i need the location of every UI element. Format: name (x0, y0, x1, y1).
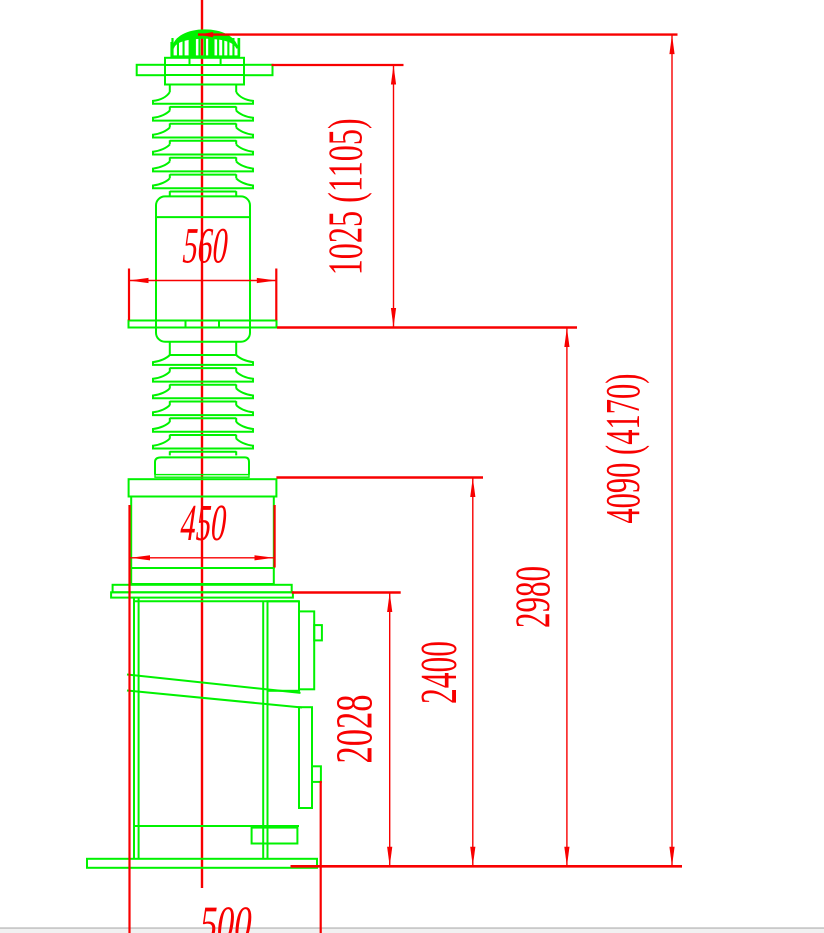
node body lower neck (170, 342, 236, 355)
wire lower shed neck 5 (170, 435, 236, 439)
node bottom step box (252, 828, 298, 844)
node dome cap crescent (172, 29, 239, 48)
wire ext line 450 right (274, 505, 276, 568)
svg-text:2980: 2980 (504, 566, 560, 628)
node terminal arm right (244, 65, 273, 75)
node arrow at centerline top (199, 32, 213, 37)
wire dim line 560 (129, 280, 276, 282)
wire ext line 500 right (320, 781, 322, 933)
node upper right panel (299, 611, 314, 689)
wire lower shed neck 1 (170, 368, 236, 372)
node top plate of box section (129, 479, 277, 496)
wire ext line 560 left (128, 269, 130, 321)
wire strip divider left (189, 58, 191, 65)
wire upper shed neck 2 (170, 123, 236, 127)
node lower insulator shed 4 (153, 405, 253, 415)
node main body cylinder (156, 196, 250, 341)
node arrow 2400 bottom (470, 847, 475, 867)
wire lower stack bottom neck (170, 451, 236, 455)
wire centerline (red vertical axis) (201, 0, 203, 888)
node arrow 450 right (255, 555, 275, 560)
wire tank right wall outer (262, 601, 264, 859)
wire dim line 2400 vertical (472, 478, 474, 867)
node arrow 2400 top (470, 478, 475, 498)
node upper insulator shed 5 (153, 161, 253, 171)
node terminal flange block (165, 65, 244, 85)
wire upper shed neck 5 (170, 174, 236, 178)
wire dim ref line bottom (291, 865, 683, 868)
wire dim ref line 2980 top (277, 326, 577, 328)
node lower right bump (312, 766, 321, 782)
wire dim line 2980 vertical (566, 328, 568, 867)
node arrow 4090 top (669, 35, 674, 55)
node box 450 section (131, 497, 274, 569)
wire dim ref line top 4090 (198, 33, 678, 35)
wire flange block divider (165, 74, 244, 76)
wire tank left wall inner (138, 598, 140, 859)
wire dim ref line 2400 top (276, 476, 483, 478)
wire dim line 1025 vertical (393, 65, 395, 328)
wire dim ref line 1025 top (272, 64, 404, 66)
wire body internal line (156, 216, 250, 218)
node lower insulator shed 6 (153, 439, 253, 449)
node neck under flange (170, 85, 236, 93)
wire mid flange divider left (185, 321, 187, 328)
svg-text:450: 450 (177, 494, 231, 552)
node arrow 1025 top (391, 65, 396, 85)
node crown bars (171, 38, 240, 56)
node lower cap block (155, 457, 249, 474)
wire dim ref line 2028 top (292, 591, 401, 593)
node upper insulator shed 2 (153, 111, 253, 121)
wire tank left wall outer (133, 598, 135, 859)
wire tank diagonal 2 (127, 691, 302, 708)
svg-text:4090 (4170): 4090 (4170) (595, 374, 650, 524)
wire upper shed neck 3 (170, 140, 236, 144)
node bottom gray band (0, 927, 824, 929)
node lower insulator shed 5 (153, 422, 253, 432)
node box lower section (131, 568, 274, 584)
node upper insulator shed 4 (153, 145, 253, 155)
wire lower shed neck 4 (170, 418, 236, 422)
node mid flange plate (129, 321, 277, 328)
node upper insulator shed 3 (153, 128, 253, 138)
wire tank diagonal 1 (127, 675, 301, 693)
node tank top plate lower (111, 592, 293, 597)
wire tank right wall inner (267, 601, 269, 859)
svg-text:2028: 2028 (327, 695, 384, 764)
node tank top plate wide (113, 585, 292, 593)
node lower right panel (299, 707, 312, 808)
node arrow 2028 top (387, 593, 392, 613)
node arrow 560 left (129, 278, 149, 283)
wire ext line 450-500 left (128, 505, 130, 933)
node upper right bump (314, 625, 322, 640)
node arrow 1025 bottom (391, 308, 396, 328)
wire dim line 2028 vertical (389, 593, 391, 867)
node lower cap base strip (155, 475, 249, 478)
svg-text:1025 (1105): 1025 (1105) (318, 118, 373, 275)
node upper insulator shed 1 (153, 92, 253, 104)
node lower insulator shed 3 (153, 388, 253, 398)
wire dim line 4090 vertical (671, 35, 673, 867)
svg-text:500: 500 (196, 896, 256, 933)
node arrow 2980 top (564, 328, 569, 348)
wire ext line 560 right (275, 269, 277, 321)
node crown band outline (171, 42, 239, 56)
node cap strip block (165, 58, 244, 65)
svg-text:560: 560 (179, 218, 232, 275)
wire upper stack bottom neck (170, 191, 236, 196)
wire tank top edge (134, 600, 299, 602)
wire lower shed neck 3 (170, 401, 236, 405)
wire lower shed neck 2 (170, 384, 236, 388)
wire upper shed neck 1 (170, 107, 236, 111)
svg-text:2400: 2400 (411, 641, 468, 704)
node base plate (87, 859, 317, 868)
node arrow 2028 bottom (387, 847, 392, 867)
node arrow 560 right (257, 278, 277, 283)
node arrow 2980 bottom (564, 847, 569, 867)
node arrow 4090 bottom (669, 847, 674, 867)
node tank upper right box (268, 601, 300, 691)
wire tank bottom edge (134, 825, 299, 827)
node arrow 450 left (131, 555, 151, 560)
wire dim line 450 (131, 557, 275, 559)
wire strip divider right (220, 58, 222, 65)
wire mid flange divider right (218, 321, 220, 328)
node lower insulator shed 1 (153, 355, 253, 365)
node terminal arm left (137, 65, 165, 75)
wire upper shed neck 4 (170, 157, 236, 161)
node lower insulator shed 2 (153, 372, 253, 382)
node upper insulator shed 6 (153, 178, 253, 188)
